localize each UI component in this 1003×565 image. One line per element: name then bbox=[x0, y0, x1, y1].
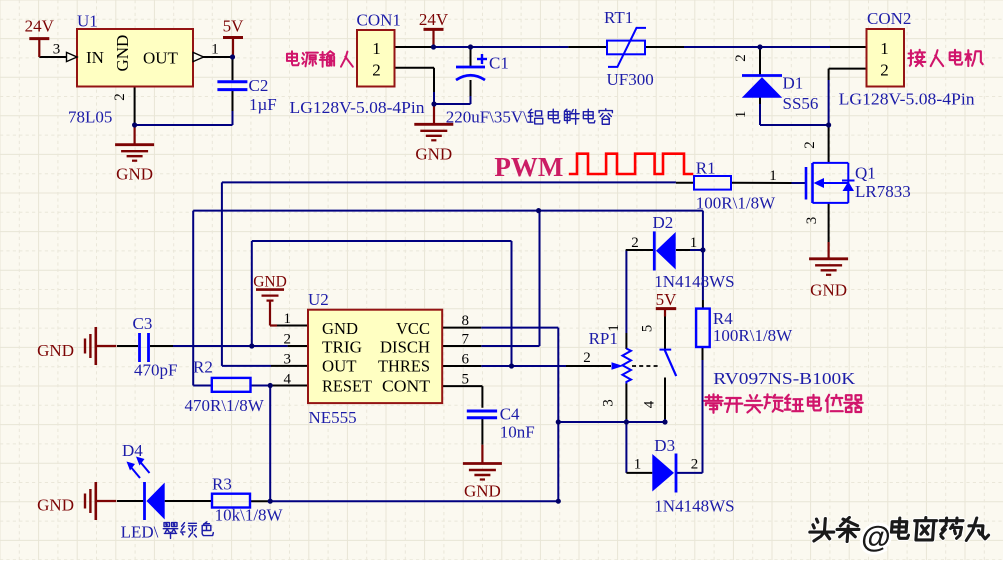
svg-text:THRES: THRES bbox=[378, 357, 430, 376]
svg-text:2: 2 bbox=[284, 331, 292, 347]
svg-text:GND: GND bbox=[810, 281, 847, 300]
svg-text:C2: C2 bbox=[249, 76, 269, 95]
svg-text:RV097NS-B100K: RV097NS-B100K bbox=[713, 369, 856, 388]
svg-text:U2: U2 bbox=[308, 290, 329, 309]
svg-text:2: 2 bbox=[733, 54, 749, 62]
svg-text:2: 2 bbox=[112, 93, 128, 101]
svg-text:3: 3 bbox=[601, 399, 617, 407]
svg-text:8: 8 bbox=[462, 313, 470, 329]
svg-text:1: 1 bbox=[372, 39, 381, 58]
svg-text:D1: D1 bbox=[783, 74, 804, 93]
svg-text:5: 5 bbox=[640, 325, 656, 333]
svg-text:100R\1/8W: 100R\1/8W bbox=[713, 326, 793, 345]
svg-text:1: 1 bbox=[606, 324, 622, 332]
svg-text:2: 2 bbox=[372, 61, 381, 80]
svg-text:470R\1/8W: 470R\1/8W bbox=[185, 396, 265, 415]
svg-text:1: 1 bbox=[733, 111, 749, 119]
svg-text:GND: GND bbox=[113, 35, 132, 72]
svg-text:LED\: LED\ bbox=[121, 523, 159, 542]
svg-text:5V: 5V bbox=[223, 17, 245, 36]
svg-text:D2: D2 bbox=[653, 213, 674, 232]
svg-text:R3: R3 bbox=[212, 475, 232, 494]
svg-text:D4: D4 bbox=[122, 441, 143, 460]
svg-text:2: 2 bbox=[583, 350, 591, 366]
svg-text:1: 1 bbox=[690, 235, 698, 251]
svg-text:PWM: PWM bbox=[494, 152, 563, 182]
svg-text:R2: R2 bbox=[193, 358, 213, 377]
svg-text:GND: GND bbox=[322, 319, 358, 338]
svg-text:VCC: VCC bbox=[396, 319, 430, 338]
svg-text:24V: 24V bbox=[419, 10, 449, 29]
svg-text:LG128V-5.08-4Pin: LG128V-5.08-4Pin bbox=[290, 98, 426, 117]
svg-text:7: 7 bbox=[462, 331, 470, 347]
svg-text:1N4148WS: 1N4148WS bbox=[654, 497, 734, 516]
svg-text:1: 1 bbox=[284, 311, 292, 327]
svg-text:4: 4 bbox=[642, 400, 658, 408]
svg-text:CON1: CON1 bbox=[357, 10, 401, 29]
svg-text:LR7833: LR7833 bbox=[855, 182, 911, 201]
svg-text:470pF: 470pF bbox=[134, 361, 177, 380]
svg-text:1: 1 bbox=[634, 457, 642, 473]
svg-text:3: 3 bbox=[53, 42, 61, 58]
svg-text:1: 1 bbox=[211, 42, 219, 58]
svg-text:GND: GND bbox=[116, 165, 153, 184]
svg-text:DISCH: DISCH bbox=[380, 337, 430, 356]
svg-text:2: 2 bbox=[691, 457, 699, 473]
svg-text:CON2: CON2 bbox=[867, 9, 911, 28]
svg-text:LG128V-5.08-4Pin: LG128V-5.08-4Pin bbox=[839, 89, 976, 108]
svg-text:2: 2 bbox=[802, 141, 818, 149]
svg-text:1N4148WS: 1N4148WS bbox=[654, 272, 734, 291]
svg-text:GND: GND bbox=[415, 145, 452, 164]
svg-text:U1: U1 bbox=[77, 12, 98, 31]
svg-text:Q1: Q1 bbox=[855, 164, 876, 183]
svg-text:4: 4 bbox=[284, 371, 292, 387]
svg-text:3: 3 bbox=[284, 351, 292, 367]
svg-text:GND: GND bbox=[37, 341, 74, 360]
svg-text:100R\1/8W: 100R\1/8W bbox=[696, 194, 776, 213]
svg-text:UF300: UF300 bbox=[607, 70, 654, 89]
svg-text:OUT: OUT bbox=[143, 49, 179, 68]
svg-text:6: 6 bbox=[462, 352, 470, 368]
svg-text:1µF: 1µF bbox=[249, 95, 277, 114]
svg-text:10k\1/8W: 10k\1/8W bbox=[215, 506, 284, 525]
svg-text:5V: 5V bbox=[656, 290, 678, 309]
svg-text:R1: R1 bbox=[696, 159, 716, 178]
svg-text:D3: D3 bbox=[654, 436, 675, 455]
svg-text:5: 5 bbox=[462, 372, 470, 388]
svg-text:@: @ bbox=[860, 521, 892, 554]
svg-text:TRIG: TRIG bbox=[322, 337, 362, 356]
svg-text:NE555: NE555 bbox=[309, 408, 357, 427]
svg-text:RT1: RT1 bbox=[604, 8, 633, 27]
svg-text:1: 1 bbox=[769, 168, 777, 184]
svg-text:C3: C3 bbox=[133, 314, 153, 333]
svg-text:3: 3 bbox=[804, 217, 820, 225]
svg-text:OUT: OUT bbox=[322, 357, 357, 376]
svg-text:2: 2 bbox=[631, 235, 639, 251]
svg-text:GND: GND bbox=[37, 496, 74, 515]
svg-text:C4: C4 bbox=[500, 405, 520, 424]
svg-text:24V: 24V bbox=[25, 17, 55, 36]
svg-text:2: 2 bbox=[880, 61, 889, 80]
svg-text:GND: GND bbox=[253, 274, 287, 291]
svg-text:RESET: RESET bbox=[322, 376, 373, 395]
svg-text:GND: GND bbox=[464, 482, 501, 501]
svg-text:C1: C1 bbox=[489, 54, 509, 73]
svg-text:IN: IN bbox=[86, 48, 104, 67]
svg-text:SS56: SS56 bbox=[783, 94, 819, 113]
svg-text:CONT: CONT bbox=[382, 376, 431, 395]
svg-text:10nF: 10nF bbox=[500, 423, 535, 442]
svg-text:1: 1 bbox=[880, 39, 889, 58]
svg-text:220uF\35V\: 220uF\35V\ bbox=[446, 108, 528, 127]
svg-text:78L05: 78L05 bbox=[68, 108, 112, 127]
